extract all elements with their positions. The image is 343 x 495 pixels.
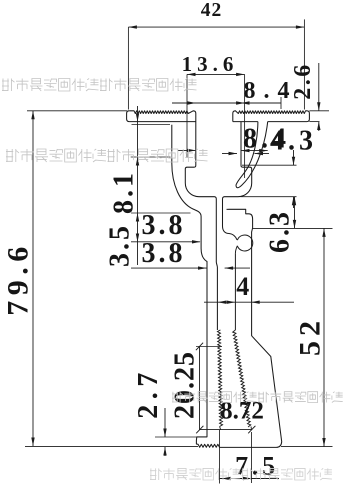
svg-text:4: 4 — [236, 272, 249, 301]
svg-text:52: 52 — [294, 316, 327, 356]
svg-text:79.6: 79.6 — [2, 241, 35, 316]
svg-text:42: 42 — [201, 0, 223, 21]
svg-text:8.1: 8.1 — [109, 170, 140, 214]
svg-text:7.5: 7.5 — [235, 452, 279, 481]
svg-text:3.8: 3.8 — [142, 238, 186, 269]
svg-text:3.5: 3.5 — [105, 223, 136, 267]
svg-text:3.8: 3.8 — [142, 210, 186, 241]
svg-text:2.7: 2.7 — [133, 367, 164, 419]
svg-text:20.25: 20.25 — [170, 351, 201, 419]
svg-text:2.6: 2.6 — [290, 62, 316, 100]
svg-text:6.3: 6.3 — [265, 209, 296, 253]
svg-text:13.6: 13.6 — [182, 52, 239, 76]
svg-text:8.72: 8.72 — [220, 398, 264, 425]
